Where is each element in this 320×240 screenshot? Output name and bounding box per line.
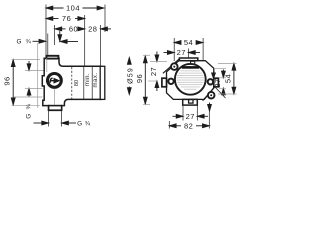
top inner hole xyxy=(191,61,195,65)
svg-text:¾: ¾ xyxy=(26,39,32,46)
svg-text:min.: min. xyxy=(85,73,91,86)
small down arrow at right port xyxy=(212,72,216,79)
right ext lines for 27 xyxy=(219,77,226,79)
flow arrow inside donut xyxy=(50,78,58,83)
svg-text:80: 80 xyxy=(74,80,80,86)
screw boss NW xyxy=(171,63,178,70)
svg-text:76: 76 xyxy=(62,14,71,23)
top port stub xyxy=(179,58,197,61)
svg-text:Ø59: Ø59 xyxy=(127,67,134,84)
ext line y=97 xyxy=(14,96,43,98)
divider line xyxy=(83,67,85,99)
body outline left view xyxy=(42,58,101,110)
dim 27 left of front view xyxy=(155,52,159,92)
dashed depth line xyxy=(71,67,73,99)
ext into body xyxy=(46,58,48,72)
dim 27 top xyxy=(164,51,201,55)
dim 54 right side xyxy=(232,63,236,94)
svg-text:max.: max. xyxy=(93,72,99,87)
ext line y=61.5 xyxy=(150,61,167,63)
NW chamfer line overshoot xyxy=(163,59,180,74)
extension line x=100.4 xyxy=(99,25,101,66)
finished wall line xyxy=(37,43,39,108)
svg-text:82: 82 xyxy=(184,121,193,130)
svg-text:60: 60 xyxy=(69,25,78,34)
bottom G3/4 right-pointing arrow xyxy=(34,121,49,125)
dim 27 bottom xyxy=(173,114,209,118)
dim 82 ext lines xyxy=(168,121,170,129)
dim 60 xyxy=(55,27,85,31)
bottom G3/4 dim ext lines xyxy=(48,111,50,127)
right port stub xyxy=(214,78,219,87)
svg-text:27: 27 xyxy=(149,67,158,76)
dim 104 xyxy=(46,6,104,10)
svg-text:96: 96 xyxy=(2,76,11,85)
svg-text:54: 54 xyxy=(223,74,232,83)
bottom stub ext lines xyxy=(182,106,184,121)
small down arrow near SE boss xyxy=(208,103,212,112)
hansgrohe label band xyxy=(182,66,200,69)
G3/4 left dim: up arrow xyxy=(27,89,31,97)
ext line top for 96 xyxy=(12,58,41,60)
ext line y=88.5 xyxy=(25,88,43,90)
svg-text:G: G xyxy=(77,120,82,127)
top ext lines xyxy=(173,38,175,61)
SE chamfer line overshoot xyxy=(203,86,216,100)
svg-text:27: 27 xyxy=(186,112,195,121)
dim 54 top xyxy=(174,41,203,45)
extension line x=47.8 xyxy=(47,34,49,56)
plaster cover circle xyxy=(175,64,206,95)
right ext line y=68.3 xyxy=(215,67,226,69)
top port stub xyxy=(46,56,58,59)
right port inner ring xyxy=(208,79,213,84)
ext line y=70.6 xyxy=(25,70,44,72)
dim 27 right side xyxy=(222,70,226,96)
svg-text:27: 27 xyxy=(177,48,186,57)
opposing arrow at top port xyxy=(60,40,78,44)
extension line x=46 xyxy=(45,5,47,56)
bottom port stub xyxy=(49,106,62,111)
dim 96 right-view xyxy=(143,56,147,104)
extension line x=84.7 xyxy=(84,15,86,66)
SE diagonal ext xyxy=(216,88,226,99)
extension line x=105 xyxy=(104,5,106,33)
svg-text:96: 96 xyxy=(135,74,144,83)
dim 96 vertical xyxy=(11,60,15,105)
leader arrow G3/4 top xyxy=(33,39,46,43)
back wall plate xyxy=(100,66,105,99)
dim 76 xyxy=(46,17,85,21)
left port inner ring xyxy=(168,79,173,84)
svg-text:¾: ¾ xyxy=(85,120,91,127)
left port stub xyxy=(162,78,167,87)
screw boss SE xyxy=(208,92,215,99)
down arrow at port axis xyxy=(58,31,62,42)
svg-text:27: 27 xyxy=(213,78,222,87)
bottom G3/4 left-pointing arrow xyxy=(62,121,76,125)
right ext lines for 54 xyxy=(218,63,237,65)
flow donut xyxy=(48,74,62,88)
G3/4 left dim: down arrow xyxy=(27,61,31,70)
svg-text:¾: ¾ xyxy=(25,103,32,109)
svg-text:G: G xyxy=(25,114,32,119)
bottom port stub xyxy=(183,99,198,105)
svg-text:54: 54 xyxy=(184,38,193,47)
svg-text:hansgrohe: hansgrohe xyxy=(185,67,196,69)
dim diameter 59 xyxy=(127,58,131,95)
bottom inner hole xyxy=(189,100,193,104)
svg-text:104: 104 xyxy=(66,4,80,13)
dim 82 xyxy=(169,124,209,128)
svg-text:28: 28 xyxy=(88,25,97,34)
extension line x=54.4 xyxy=(53,25,55,45)
svg-text:G: G xyxy=(17,39,22,46)
body octagon front view xyxy=(167,61,214,100)
ext line bottom for 96 xyxy=(12,105,41,107)
centerline below donut xyxy=(53,89,55,106)
sticker text lines xyxy=(177,70,204,89)
ext line y=81 xyxy=(148,80,158,82)
ext ticks for 96 xyxy=(143,54,150,56)
divider line xyxy=(91,67,93,99)
